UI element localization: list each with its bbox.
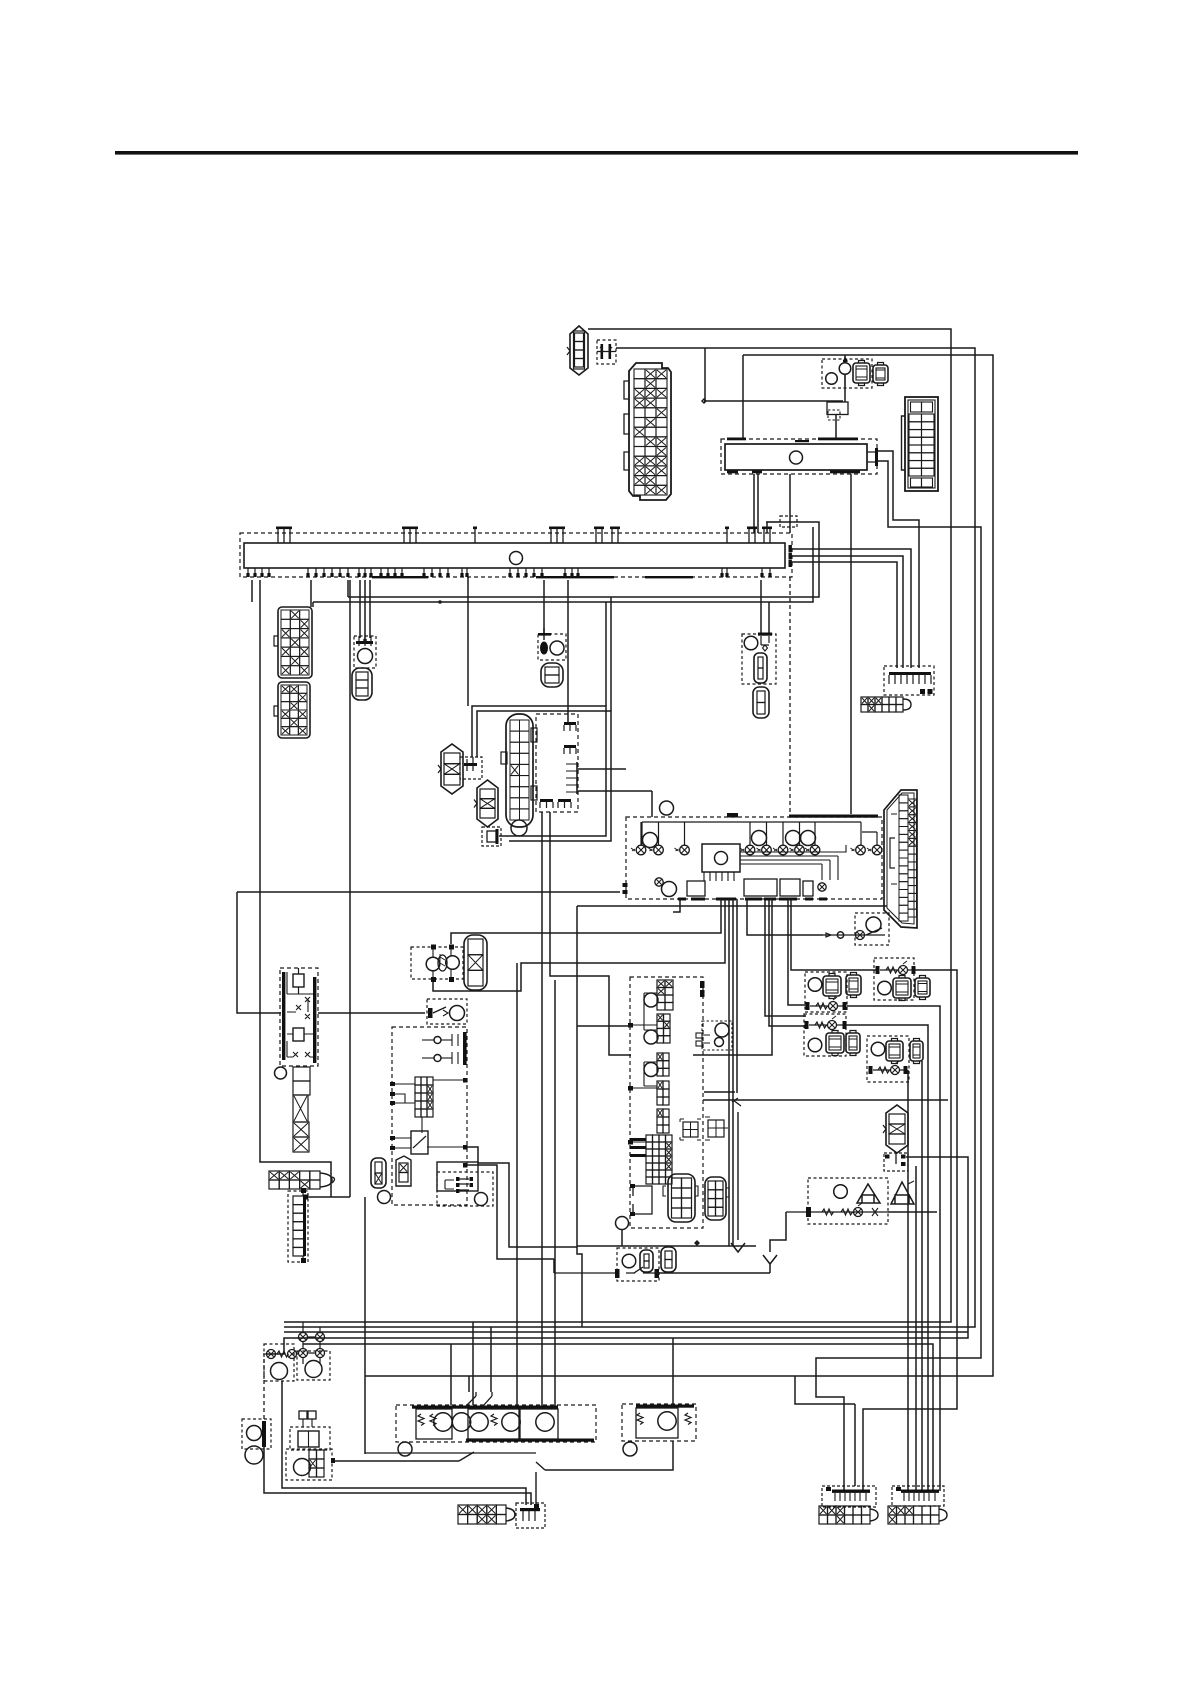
wire	[578, 769, 585, 791]
wire	[754, 474, 758, 533]
diode block D1	[516, 1503, 545, 1528]
wire	[313, 527, 813, 633]
pickup coil G1	[823, 913, 889, 945]
plug coupler J14	[460, 757, 482, 779]
wire	[656, 1272, 770, 1274]
switch blades SW1	[466, 1392, 492, 1406]
wire	[863, 970, 957, 1491]
connector J15	[819, 1506, 878, 1524]
spark plug lead P2	[474, 780, 498, 827]
wire	[541, 812, 543, 1406]
rear brake switch RB1	[458, 1505, 515, 1524]
wire	[467, 1147, 577, 1247]
wire	[263, 1359, 265, 1422]
wire	[703, 1099, 948, 1101]
wire	[348, 522, 819, 597]
wire	[795, 1376, 855, 1486]
connector J16	[888, 1506, 947, 1524]
wire	[260, 580, 331, 1197]
wire G3 pin row	[876, 961, 916, 975]
wire	[516, 963, 518, 1405]
connector G4b	[846, 1031, 860, 1056]
wire	[742, 355, 744, 440]
wire	[310, 580, 312, 607]
relay RP1 box	[297, 1351, 330, 1380]
wire	[673, 899, 680, 912]
wire	[577, 1230, 756, 1246]
handlebar switch SW1 (right)	[396, 1405, 596, 1442]
wire G4 pin row	[805, 1016, 847, 1030]
diode block D3	[827, 402, 848, 420]
wire	[303, 1344, 933, 1491]
front brake switch blade	[365, 1452, 536, 1461]
neutral switch N1 group	[808, 1178, 888, 1224]
starter relay K5 box	[371, 1027, 468, 1205]
wire	[907, 1070, 909, 1491]
wire	[490, 1327, 492, 1392]
wire	[791, 899, 876, 970]
wire	[284, 329, 951, 1322]
wire	[769, 899, 806, 1026]
flasher relay FR1	[263, 1344, 298, 1381]
sensor K3 with coupler	[538, 628, 566, 660]
wire	[846, 1025, 928, 1491]
unit U1 (relay/fuse unit)	[721, 438, 878, 475]
connector G2b	[846, 973, 861, 998]
relay K1 (starting circuit cut-off relay)	[822, 357, 872, 388]
wire	[554, 980, 556, 1406]
speed sensor coupler	[884, 1153, 908, 1171]
wire	[850, 474, 852, 814]
wire	[365, 355, 993, 1376]
connector J10 (ECU coupler B)	[884, 790, 917, 928]
wire	[472, 1322, 474, 1405]
wire	[732, 899, 734, 1246]
wire	[577, 905, 887, 907]
wire	[360, 580, 370, 638]
wire	[760, 580, 762, 633]
wire	[765, 899, 806, 1016]
speed sensor S1	[883, 1105, 908, 1153]
throttle position sensor TPS coupler	[411, 945, 463, 983]
wire	[284, 348, 975, 1327]
wire G5 pin row	[869, 1061, 908, 1075]
ignition coil unit box	[536, 714, 578, 812]
wire	[921, 1061, 923, 1491]
wire arrow	[731, 1243, 745, 1252]
connector J13	[753, 687, 769, 718]
junction block JB1 (center sensor box)	[616, 977, 733, 1230]
connector J6	[274, 607, 312, 678]
circle CB1	[275, 1067, 287, 1079]
wire	[577, 1025, 631, 1027]
wire	[318, 1012, 425, 1014]
connector J12 (fuse coupler)	[861, 697, 911, 712]
wire	[364, 1197, 366, 1454]
circle SW2c	[623, 1442, 637, 1456]
page frame title rule	[115, 151, 1078, 155]
wire N1 pin row	[786, 1203, 888, 1217]
wire	[553, 1259, 555, 1273]
wire	[789, 474, 791, 817]
battery cable strip	[288, 1188, 308, 1263]
wire	[693, 899, 772, 1055]
wire SR pin row	[554, 1267, 659, 1278]
ignition coil T1	[501, 714, 537, 827]
wire	[702, 348, 843, 403]
wire	[915, 1166, 917, 1491]
wire	[545, 1338, 673, 1470]
connector J5 (ECU coupler A)	[902, 397, 939, 491]
wire	[728, 899, 730, 1246]
fuse comb F3	[892, 1486, 944, 1506]
wire	[816, 461, 981, 1491]
sidestand relay SR group	[617, 1248, 659, 1281]
connector J3 (main harness multi-pin)	[624, 363, 671, 500]
wire	[610, 597, 612, 711]
battery BT1	[280, 968, 318, 1066]
intake air pressure sensor G3 group	[874, 958, 914, 1001]
wire G2 pin row	[806, 997, 847, 1011]
wire	[312, 602, 314, 607]
connector J7	[274, 682, 310, 738]
connector J1 (4-pin instrument coupler)	[567, 326, 588, 375]
wire	[836, 355, 845, 440]
sensor K2 with coupler	[354, 634, 376, 668]
wire	[451, 899, 721, 944]
wire	[251, 580, 253, 602]
wire	[792, 549, 911, 668]
wire	[467, 577, 469, 706]
bus bar B1 (wire harness junction)	[240, 527, 792, 579]
wire	[788, 899, 807, 1005]
cylinder ID sensor G2 group	[805, 972, 847, 1012]
wire	[266, 1157, 968, 1354]
wire	[704, 1091, 735, 1093]
wire	[543, 580, 545, 634]
fuse strip FS1	[293, 1067, 310, 1152]
relay pins RP1 (2x2)	[299, 1322, 325, 1364]
sensor K4 with coupler	[742, 633, 776, 685]
wire	[550, 812, 631, 1055]
connector J9	[541, 663, 563, 687]
wire	[282, 1381, 526, 1505]
handlebar switch SW2 (left)	[622, 1404, 696, 1441]
connector J4	[873, 363, 888, 386]
starter motor M1	[269, 1171, 335, 1189]
wire	[888, 1211, 937, 1213]
fuse comb F2	[822, 1486, 876, 1507]
connector G3b	[915, 976, 930, 1000]
clutch switch CS1	[437, 1162, 493, 1206]
wire	[335, 1460, 459, 1462]
wire	[467, 1165, 554, 1259]
intake air temp sensor G5 group	[867, 1036, 909, 1082]
connector SRb	[661, 1247, 676, 1272]
junction box J11	[766, 516, 797, 527]
sidestand switch SS1	[427, 999, 467, 1024]
connector TPSb	[464, 935, 487, 990]
engine stop switch blade	[536, 1462, 545, 1505]
wire	[605, 602, 607, 706]
wire	[472, 706, 606, 836]
connector N1b	[891, 1181, 914, 1204]
wire	[450, 1344, 452, 1405]
spark plug lead P1	[438, 744, 463, 794]
wire	[763, 1212, 786, 1273]
wire	[878, 451, 919, 668]
coil pin box	[482, 827, 501, 846]
wire	[477, 711, 611, 841]
coil secondary circle	[511, 820, 527, 836]
wire	[847, 1006, 940, 1491]
wire	[792, 562, 897, 668]
coolant temp sensor G4 group	[804, 1014, 846, 1056]
horn H1	[286, 1411, 335, 1480]
wire	[792, 556, 903, 668]
wire	[349, 580, 351, 1197]
horn connector HC1	[242, 1419, 271, 1464]
wire	[468, 1376, 470, 1392]
wire	[585, 769, 652, 817]
ECU U2 (engine control unit)	[623, 801, 883, 901]
wire	[736, 899, 738, 1093]
wire	[284, 1331, 968, 1333]
wire	[747, 899, 823, 935]
wire break symbol	[732, 1098, 741, 1240]
fuse block F1	[884, 666, 934, 695]
connector J8	[352, 668, 372, 700]
wire	[577, 906, 582, 1327]
connector G5b	[910, 1039, 923, 1064]
wire	[237, 892, 620, 1013]
wire	[303, 1195, 350, 1200]
wire	[567, 580, 569, 722]
wire	[433, 899, 725, 991]
circle SW1c	[398, 1442, 412, 1456]
inline coupler J2	[597, 340, 616, 364]
wire	[264, 1446, 531, 1505]
